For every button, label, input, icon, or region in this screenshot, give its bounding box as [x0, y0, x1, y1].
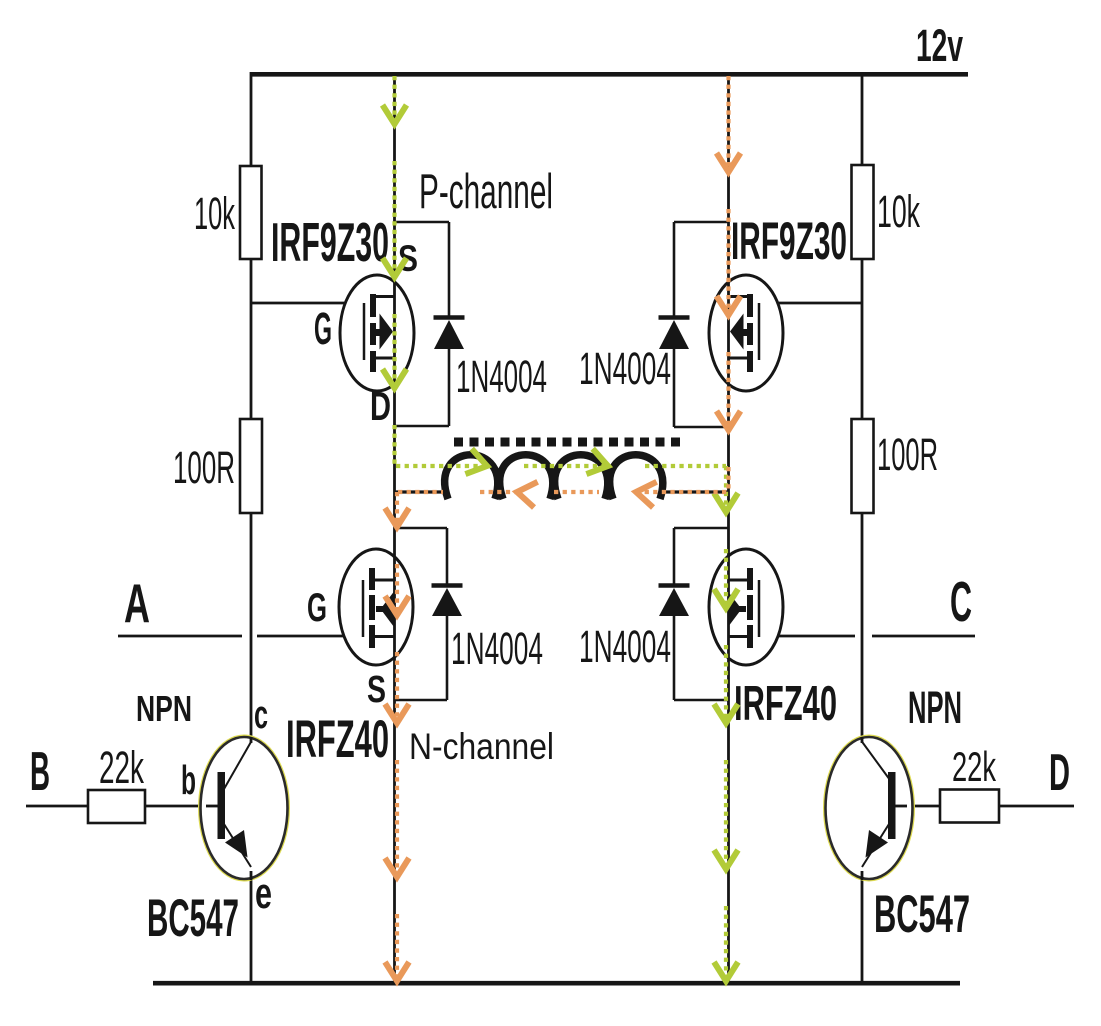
label P-channel: [419, 165, 553, 219]
svg-text:N-channel: N-channel: [409, 726, 554, 767]
wire A to lower-left gate: [257, 635, 365, 638]
svg-text:100R: 100R: [877, 429, 938, 480]
svg-text:IRFZ40: IRFZ40: [734, 677, 837, 731]
svg-text:BC547: BC547: [874, 885, 970, 944]
wire 22k to base Q1: [145, 805, 218, 808]
transistor Q1 part label BC547: [147, 889, 239, 948]
wire 12v top supply rail: [252, 72, 968, 77]
svg-text:c: c: [254, 693, 268, 737]
wire C input line: [872, 635, 975, 638]
transistor U3 IRFZ40 (lower-left N-channel MOSFET): [339, 549, 413, 665]
node D label: [1049, 744, 1070, 802]
svg-text:S: S: [398, 238, 418, 279]
wire gate lead upper-left (to IRF9Z30 G): [251, 302, 364, 305]
resistor R5 22k (left): [88, 790, 145, 823]
transistor U3 pin label S: [367, 669, 386, 711]
resistor R5 value label 22k: [99, 742, 144, 793]
transistor U1 pin label D: [370, 383, 391, 429]
svg-text:G: G: [307, 586, 327, 630]
svg-text:G: G: [314, 303, 332, 354]
wire gate lead upper-right (to IRF9Z30 G): [759, 302, 862, 305]
diode D4 1N4004 (across lower-right MOSFET): [659, 528, 729, 700]
wire base Q2 to 22k: [895, 805, 940, 808]
svg-text:IRF9Z30: IRF9Z30: [271, 211, 389, 273]
transistor Q2 type label NPN: [908, 682, 962, 733]
wire left vertical branch (x=251): [250, 72, 253, 981]
wire B input lead: [26, 805, 88, 808]
svg-text:1N4004: 1N4004: [451, 623, 543, 674]
svg-text:10k: 10k: [877, 186, 920, 237]
diode D4 value label 1N4004: [579, 621, 671, 672]
node B label: [30, 740, 50, 802]
wire right middle vertical (MOSFET leg x=728.5): [727, 74, 730, 981]
svg-text:e: e: [255, 869, 272, 918]
wire orange dotted current path across motor: [398, 490, 727, 494]
svg-text:22k: 22k: [952, 743, 997, 790]
transistor U1 IRF9Z30 (upper-left P-channel MOSFET): [340, 275, 414, 391]
svg-text:P-channel: P-channel: [419, 165, 553, 219]
green current direction arrows: [383, 105, 739, 981]
diode D2 value label 1N4004: [579, 343, 671, 394]
resistor R4 100R (right): [852, 419, 874, 513]
wire left middle vertical (MOSFET leg x=394.5): [393, 74, 396, 981]
transistor Q1 pin label b: [181, 757, 196, 803]
inductor L1 motor winding: [395, 455, 728, 499]
transistor U4 IRFZ40 (lower-right N-channel MOSFET): [709, 549, 783, 665]
transistor Q1 pin label c: [254, 693, 268, 737]
wire lower-right gate to C: [759, 635, 855, 638]
resistor R2 value label 100R: [173, 442, 235, 493]
node C label: [950, 570, 972, 634]
svg-text:D: D: [1049, 744, 1070, 802]
wire A input line: [118, 635, 242, 638]
transistor U3 part label IRFZ40: [286, 710, 389, 769]
diode D3 value label 1N4004: [451, 623, 543, 674]
svg-text:D: D: [370, 383, 391, 429]
resistor R4 value label 100R: [877, 429, 938, 480]
svg-text:S: S: [367, 669, 386, 711]
svg-text:NPN: NPN: [908, 682, 962, 733]
wire green dotted current path lower-right vertical: [724, 466, 728, 981]
transistor Q1 BC547 (left NPN): [201, 737, 288, 880]
svg-text:b: b: [181, 757, 196, 803]
svg-text:IRFZ40: IRFZ40: [286, 710, 389, 769]
node A label: [124, 572, 150, 634]
resistor R6 value label 22k: [952, 743, 997, 790]
svg-text:10k: 10k: [194, 188, 235, 239]
transistor Q2 BC547 (right NPN): [826, 737, 913, 880]
transistor U4 part label IRFZ40: [734, 677, 837, 731]
transistor U2 IRF9Z30 (upper-right P-channel MOSFET): [709, 275, 783, 391]
wire right vertical branch (x=862): [861, 72, 864, 981]
transistor Q1 type label NPN: [136, 688, 192, 729]
svg-text:1N4004: 1N4004: [456, 351, 547, 402]
transistor U1 pin label S: [398, 238, 418, 279]
wire orange dotted current path upper-right vertical: [726, 76, 730, 492]
svg-text:1N4004: 1N4004: [579, 621, 671, 672]
resistor R3 value label 10k: [877, 186, 920, 237]
wire green dotted current path upper-left vertical: [392, 76, 396, 466]
transistor U3 pin label G: [307, 586, 327, 630]
orange current direction arrows: [385, 153, 741, 981]
resistor R6 22k (right): [940, 790, 999, 823]
svg-text:12v: 12v: [916, 20, 963, 71]
resistor R1 value label 10k: [194, 188, 235, 239]
diode D2 1N4004 (across upper-right MOSFET): [659, 222, 730, 427]
svg-text:100R: 100R: [173, 442, 235, 493]
svg-text:C: C: [950, 570, 972, 634]
inductor L1 core dashed line: [454, 438, 684, 447]
diode D3 1N4004 (across lower-left MOSFET): [395, 528, 463, 700]
svg-text:IRF9Z30: IRF9Z30: [731, 212, 847, 271]
resistor R1 10k (top left): [240, 166, 262, 259]
svg-text:22k: 22k: [99, 742, 144, 793]
wire green dotted current path across motor: [396, 464, 726, 468]
label N-channel: [409, 726, 554, 767]
resistor R3 10k (top right): [852, 165, 874, 259]
transistor Q2 part label BC547: [874, 885, 970, 944]
diode D1 value label 1N4004: [456, 351, 547, 402]
resistor R2 100R (left): [240, 419, 262, 513]
svg-text:NPN: NPN: [136, 688, 192, 729]
transistor Q1 pin label e: [255, 869, 272, 918]
wire D input lead: [999, 805, 1074, 808]
transistor U1 pin label G: [314, 303, 332, 354]
svg-text:1N4004: 1N4004: [579, 343, 671, 394]
wire bottom rail: [153, 981, 960, 986]
wire orange dotted current path lower-left vertical: [395, 492, 399, 981]
diode D1 1N4004 (across upper-left MOSFET): [395, 222, 465, 426]
svg-text:BC547: BC547: [147, 889, 239, 948]
transistor U2 part label IRF9Z30: [731, 212, 847, 271]
svg-text:A: A: [124, 572, 150, 634]
svg-text:B: B: [30, 740, 50, 802]
node 12v label: [916, 20, 963, 71]
transistor U1 part label IRF9Z30: [271, 211, 389, 273]
